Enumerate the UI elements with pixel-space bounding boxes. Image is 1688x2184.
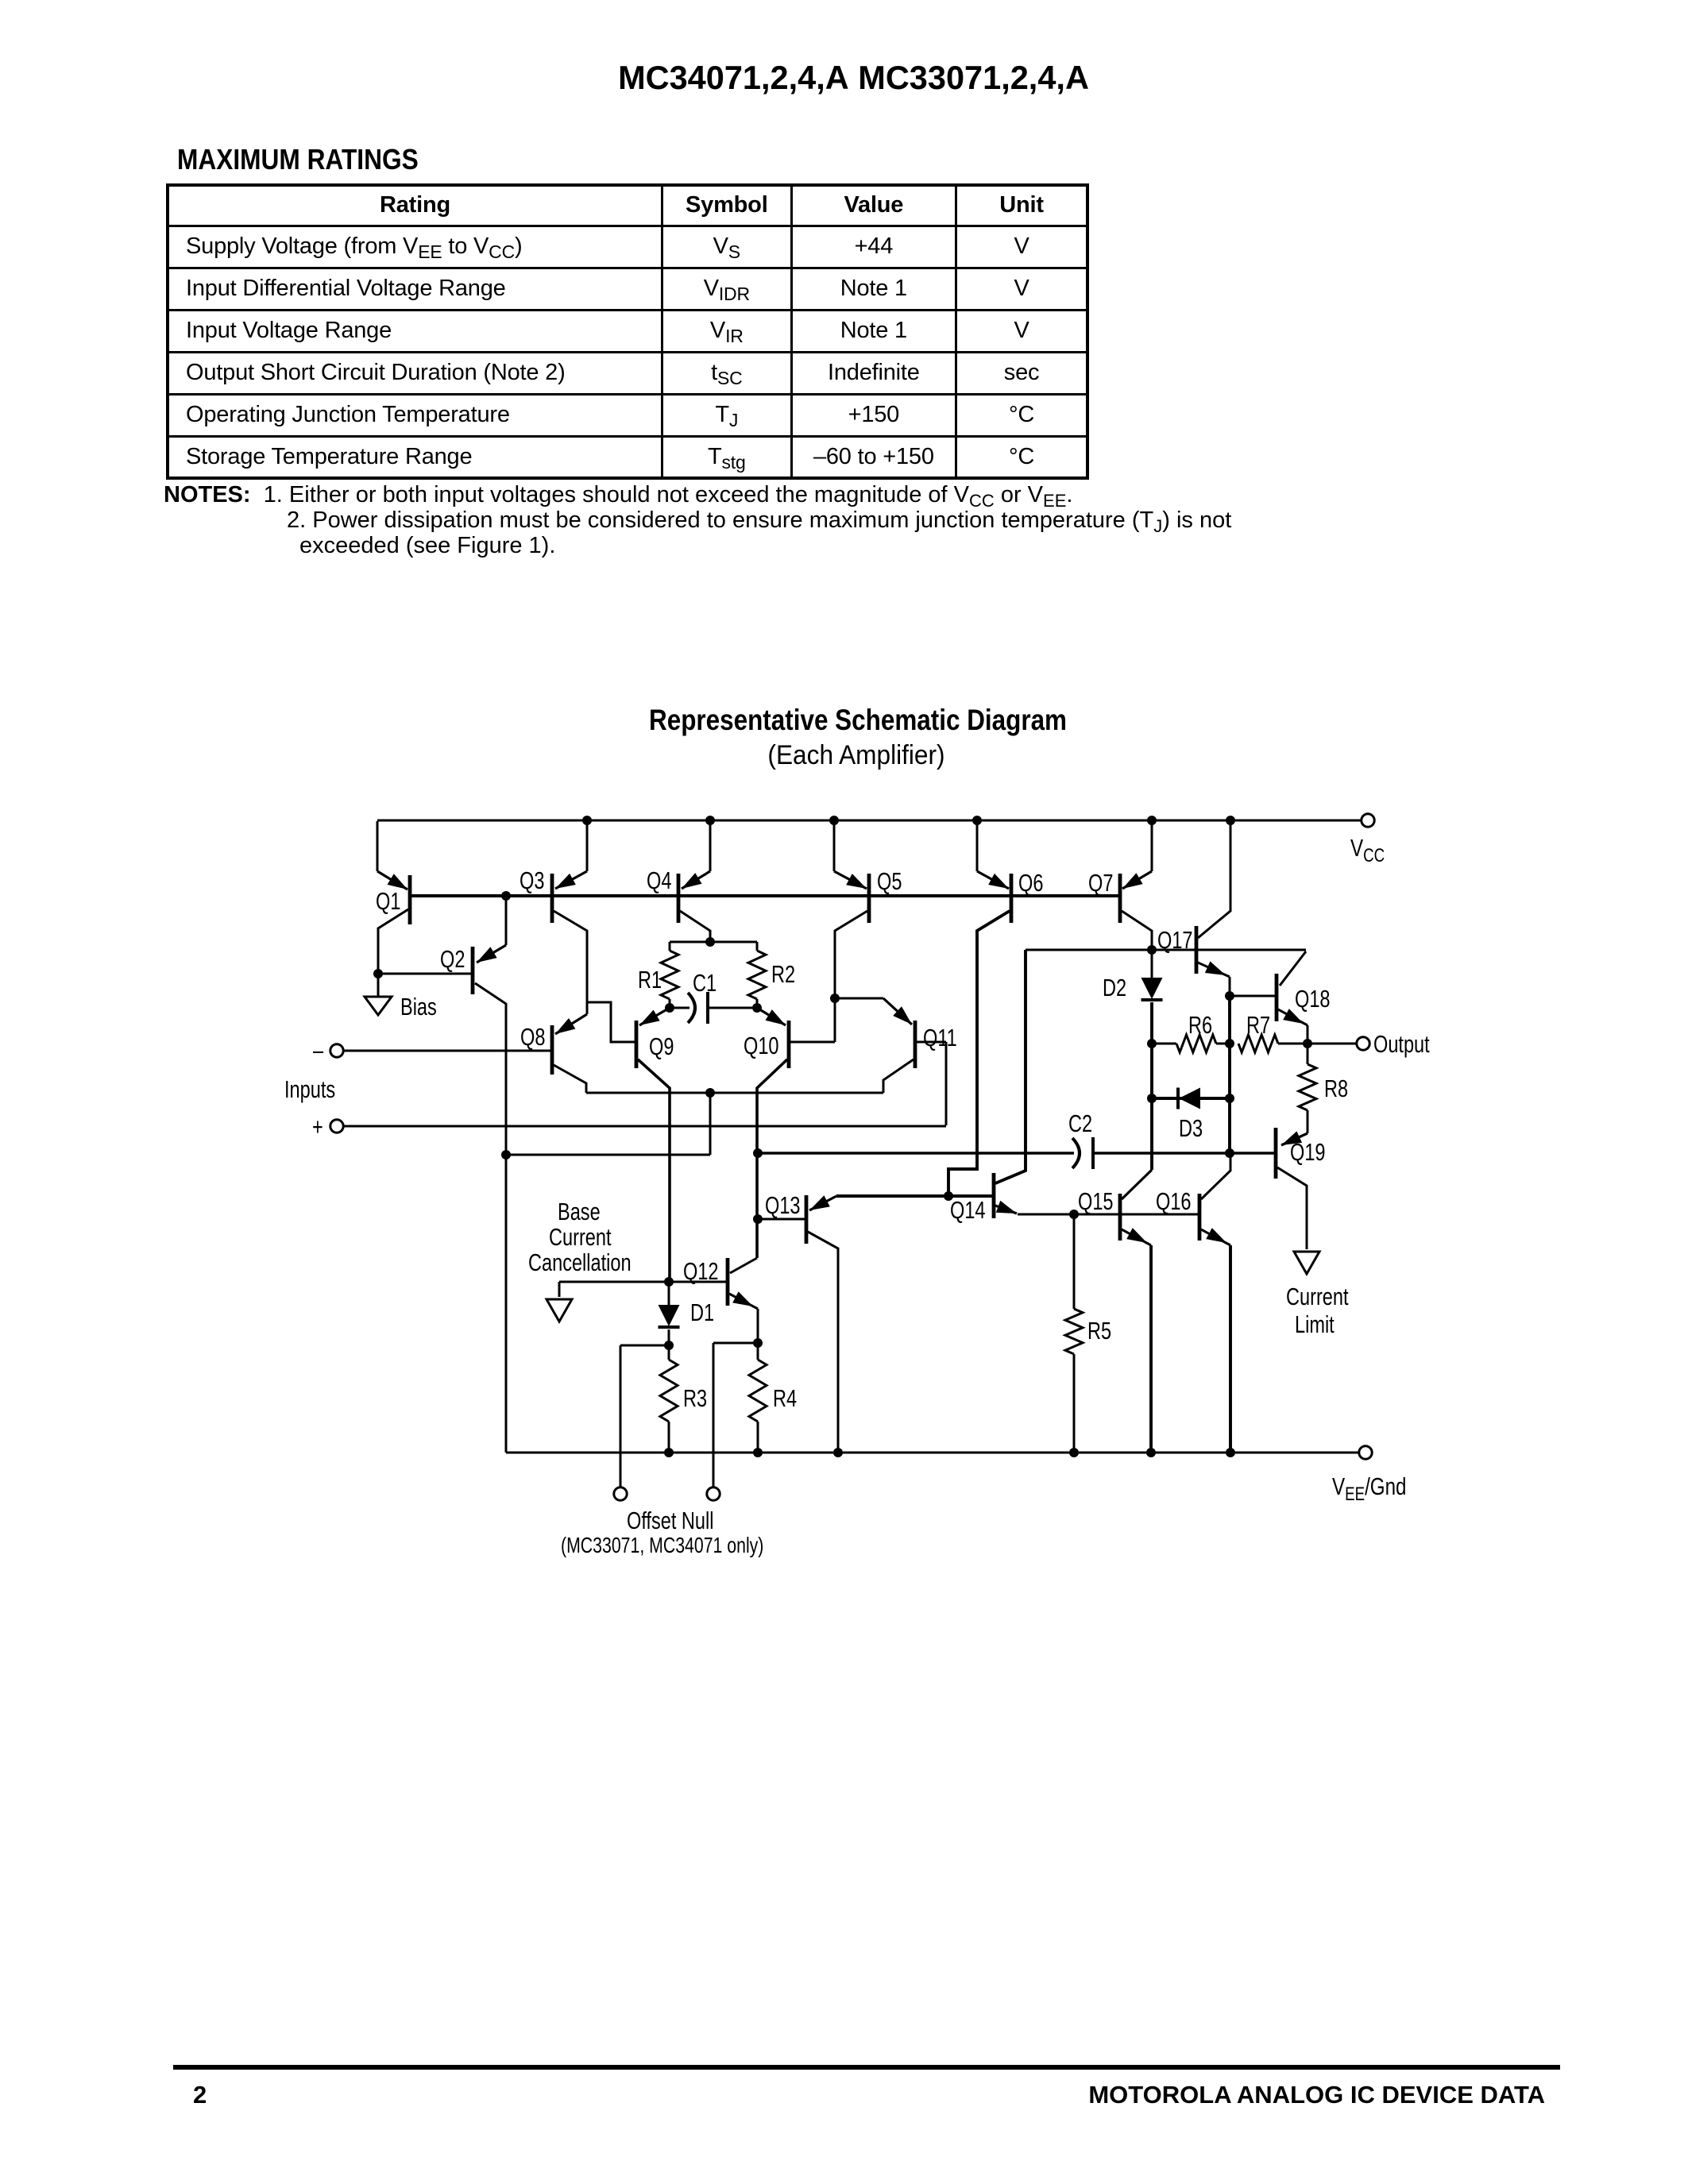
svg-text:(Each Amplifier): (Each Amplifier) (767, 739, 944, 770)
svg-text:Q5: Q5 (877, 867, 902, 895)
svg-text:Q8: Q8 (520, 1023, 545, 1051)
svg-text:R3: R3 (683, 1384, 707, 1412)
svg-text:Q1: Q1 (376, 887, 400, 915)
svg-text:Inputs: Inputs (284, 1075, 335, 1103)
svg-text:C2: C2 (1068, 1109, 1092, 1137)
svg-text:(MC33071, MC34071 only): (MC33071, MC34071 only) (561, 1533, 763, 1558)
svg-text:Limit: Limit (1295, 1310, 1335, 1338)
svg-text:+: + (312, 1113, 323, 1140)
svg-text:Q10: Q10 (744, 1032, 779, 1059)
svg-text:C1: C1 (693, 969, 717, 997)
svg-text:R5: R5 (1087, 1317, 1111, 1345)
svg-text:Representative Schematic Diagr: Representative Schematic Diagram (649, 704, 1067, 737)
svg-text:Q6: Q6 (1018, 869, 1043, 897)
svg-text:Cancellation: Cancellation (528, 1248, 632, 1276)
svg-text:D2: D2 (1103, 974, 1126, 1001)
svg-text:Q14: Q14 (950, 1196, 986, 1224)
svg-text:VCC: VCC (1350, 834, 1385, 866)
svg-text:Q3: Q3 (520, 866, 544, 894)
svg-text:Q12: Q12 (683, 1257, 719, 1285)
svg-text:R4: R4 (773, 1384, 797, 1412)
svg-text:MAXIMUM RATINGS: MAXIMUM RATINGS (177, 144, 419, 176)
svg-text:Base: Base (558, 1198, 601, 1225)
svg-text:Q13: Q13 (765, 1191, 801, 1219)
svg-text:R6: R6 (1188, 1011, 1212, 1039)
svg-text:Q15: Q15 (1078, 1187, 1114, 1215)
svg-text:Current: Current (549, 1223, 612, 1251)
svg-text:VEE/Gnd: VEE/Gnd (1332, 1472, 1406, 1504)
svg-text:Q2: Q2 (440, 945, 465, 973)
svg-text:Q19: Q19 (1290, 1138, 1326, 1166)
svg-text:R2: R2 (771, 960, 795, 988)
svg-text:R7: R7 (1246, 1011, 1270, 1039)
svg-text:Q16: Q16 (1156, 1187, 1192, 1215)
svg-text:–: – (313, 1036, 324, 1064)
svg-text:Q11: Q11 (923, 1024, 957, 1051)
svg-text:Q4: Q4 (647, 866, 671, 894)
svg-text:Q7: Q7 (1088, 869, 1113, 897)
svg-text:D3: D3 (1179, 1114, 1203, 1142)
svg-text:Q9: Q9 (649, 1032, 674, 1060)
svg-text:D1: D1 (690, 1298, 714, 1326)
svg-text:Bias: Bias (400, 993, 437, 1021)
svg-text:R1: R1 (638, 966, 662, 994)
svg-text:Current: Current (1286, 1283, 1349, 1310)
svg-text:Output: Output (1373, 1030, 1430, 1058)
svg-text:R8: R8 (1324, 1075, 1348, 1102)
svg-text:Offset Null: Offset Null (627, 1507, 713, 1534)
svg-text:Q18: Q18 (1295, 985, 1331, 1013)
